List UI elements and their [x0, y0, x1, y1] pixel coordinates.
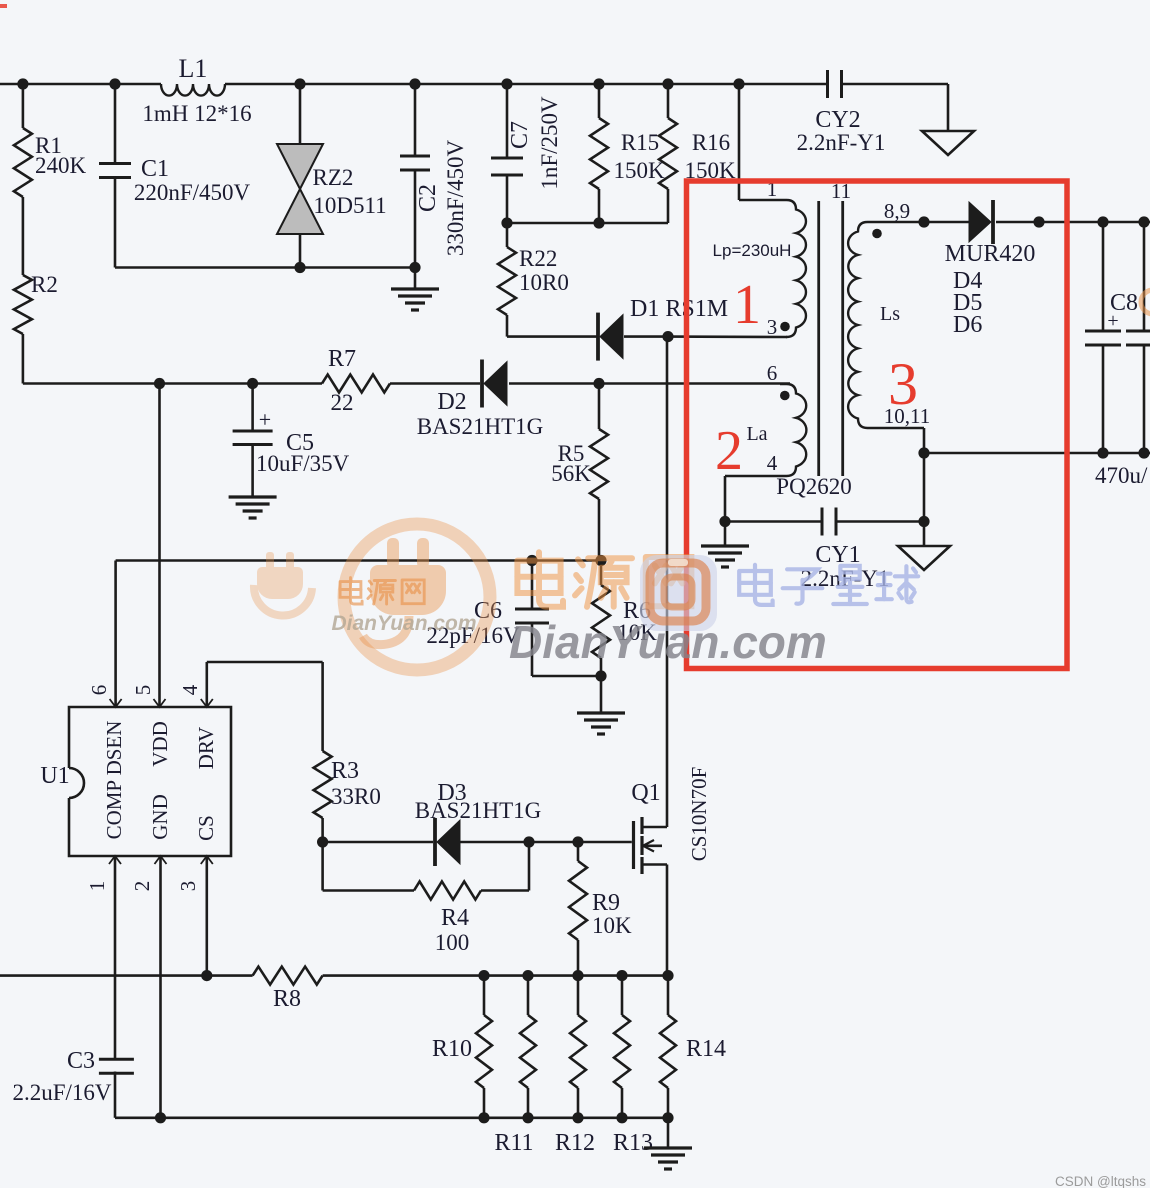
ground under R6: [577, 676, 625, 734]
red highlight box: [687, 181, 1068, 669]
resistor R22: [498, 223, 569, 337]
varistor RZ2 10D511: [277, 84, 387, 268]
wire Q1 source: [666, 865, 669, 976]
resistor R16: [659, 84, 736, 223]
wire Ls bottom lead: [918, 428, 929, 546]
wire output return rail: [924, 447, 1150, 458]
capacitor C5: [233, 384, 350, 498]
resistor R5: [551, 384, 608, 561]
pin 5 lead: [131, 384, 166, 708]
label pins 10 11: [884, 404, 930, 428]
label R14: [686, 1036, 726, 1062]
capacitor C1: [99, 84, 251, 268]
ground under C2: [391, 268, 439, 311]
resistor R8: [253, 967, 323, 1012]
watermark ring A: [344, 524, 490, 670]
wire pin1 lead: [738, 84, 741, 200]
resistor R13: [614, 976, 630, 1118]
watermark small plug: [254, 552, 312, 616]
wire C1/RZ2/C2 bottom rail: [115, 262, 421, 273]
resistor R4 bypass: [323, 842, 529, 955]
ground bottom right: [644, 1118, 692, 1169]
watermark logo dianzixingqiu: [640, 555, 717, 631]
diode D3 BAS21HT1G: [415, 780, 542, 866]
watermark edge ring: [1141, 290, 1150, 314]
resistor R2: [14, 272, 58, 334]
watermark text dianyuanwang A: [331, 578, 476, 635]
wire Ls top lead: [918, 216, 929, 227]
aux winding La: [725, 384, 806, 476]
capacitor CY1: [725, 508, 930, 592]
watermark plug A: [363, 538, 446, 645]
pin 3 lead: [176, 856, 213, 976]
wire R2 to VDD rail: [22, 334, 25, 384]
wire R22 to D1: [507, 335, 597, 338]
resistor R6: [592, 561, 657, 677]
diode D2 BAS21HT1G: [417, 360, 544, 440]
wire C7/R15/R16 bottom rail: [501, 217, 668, 228]
capacitor C3: [12, 1048, 133, 1118]
pin 6 lead: [87, 561, 122, 708]
wire DSEN rail: [116, 555, 607, 566]
resistor R12: [570, 976, 586, 1118]
wire gate rail: [317, 836, 632, 847]
capacitor C8: [1085, 222, 1138, 453]
svg-text:DianYuan.com: DianYuan.com: [509, 616, 827, 668]
resistor R3: [314, 751, 381, 842]
node top-rail junctions: [17, 78, 744, 89]
label R10: [432, 1036, 472, 1062]
primary winding Lp: [713, 200, 806, 337]
wire DRV to R3: [207, 662, 323, 751]
resistor R7: [322, 346, 390, 415]
red number 2: [715, 420, 743, 482]
resistor R9: [569, 842, 632, 976]
red number 1: [733, 274, 761, 336]
label pin 4: [767, 451, 778, 475]
credit CSDN: [1055, 1174, 1146, 1188]
label pins 8 9: [872, 199, 910, 238]
diode D4 D5 D6 MUR420: [945, 200, 1036, 338]
pin 2 lead: [130, 856, 167, 1118]
node pin 3: [767, 315, 790, 339]
label pin 1: [767, 177, 778, 201]
resistor R15: [590, 84, 665, 223]
secondary winding Ls: [848, 222, 970, 428]
pin 1 lead: [85, 856, 121, 1059]
diode D1 RS1M: [598, 296, 728, 361]
resistor R11: [520, 976, 536, 1118]
transistor Q1 CS10N70F: [631, 767, 711, 874]
label pin 11: [831, 179, 851, 203]
label pin 6: [767, 361, 778, 385]
capacitor C9 edge: [1126, 222, 1150, 453]
op-amp U1 controller: [40, 707, 231, 856]
svg-text:CSDN @ltqshs: CSDN @ltqshs: [1055, 1174, 1146, 1188]
chassis ground CY2: [922, 84, 974, 155]
pin 4 lead: [178, 662, 213, 707]
inductor L1: [142, 54, 251, 126]
resistor R1: [14, 84, 87, 197]
svg-text:DianYuan.com: DianYuan.com: [331, 612, 476, 635]
transformer core PQ2620: [776, 201, 851, 499]
red number 3: [888, 351, 918, 417]
wire output rail: [996, 216, 1150, 227]
capacitor CY2: [797, 70, 948, 155]
ground under C5: [229, 497, 277, 518]
red mark top-left: [0, 4, 7, 8]
capacitor C2: [400, 84, 468, 268]
capacitor C7: [491, 84, 562, 223]
wire top AC rail: [0, 83, 826, 86]
labels R11 R12 R13: [494, 1130, 653, 1156]
ground aux: [701, 546, 749, 567]
wire Q1 drain: [666, 337, 669, 827]
label 470u: [1095, 463, 1148, 488]
watermark big dianyuanwang B: [517, 552, 691, 607]
chassis ground CY1: [898, 546, 950, 570]
wire R1-R2: [22, 197, 25, 275]
wire CS rail: [0, 970, 674, 981]
watermark text dianzixingqiu: [739, 565, 918, 605]
wire ground rail: [115, 1112, 674, 1123]
capacitor C6: [426, 561, 606, 682]
wire VDD rail: [23, 378, 790, 389]
wire D1 to pin3: [624, 331, 787, 342]
watermark big DianYuan.com: [509, 616, 827, 668]
wire pin4 to ground: [719, 476, 730, 546]
resistor R10: [476, 976, 492, 1118]
resistor R14: [660, 976, 676, 1118]
